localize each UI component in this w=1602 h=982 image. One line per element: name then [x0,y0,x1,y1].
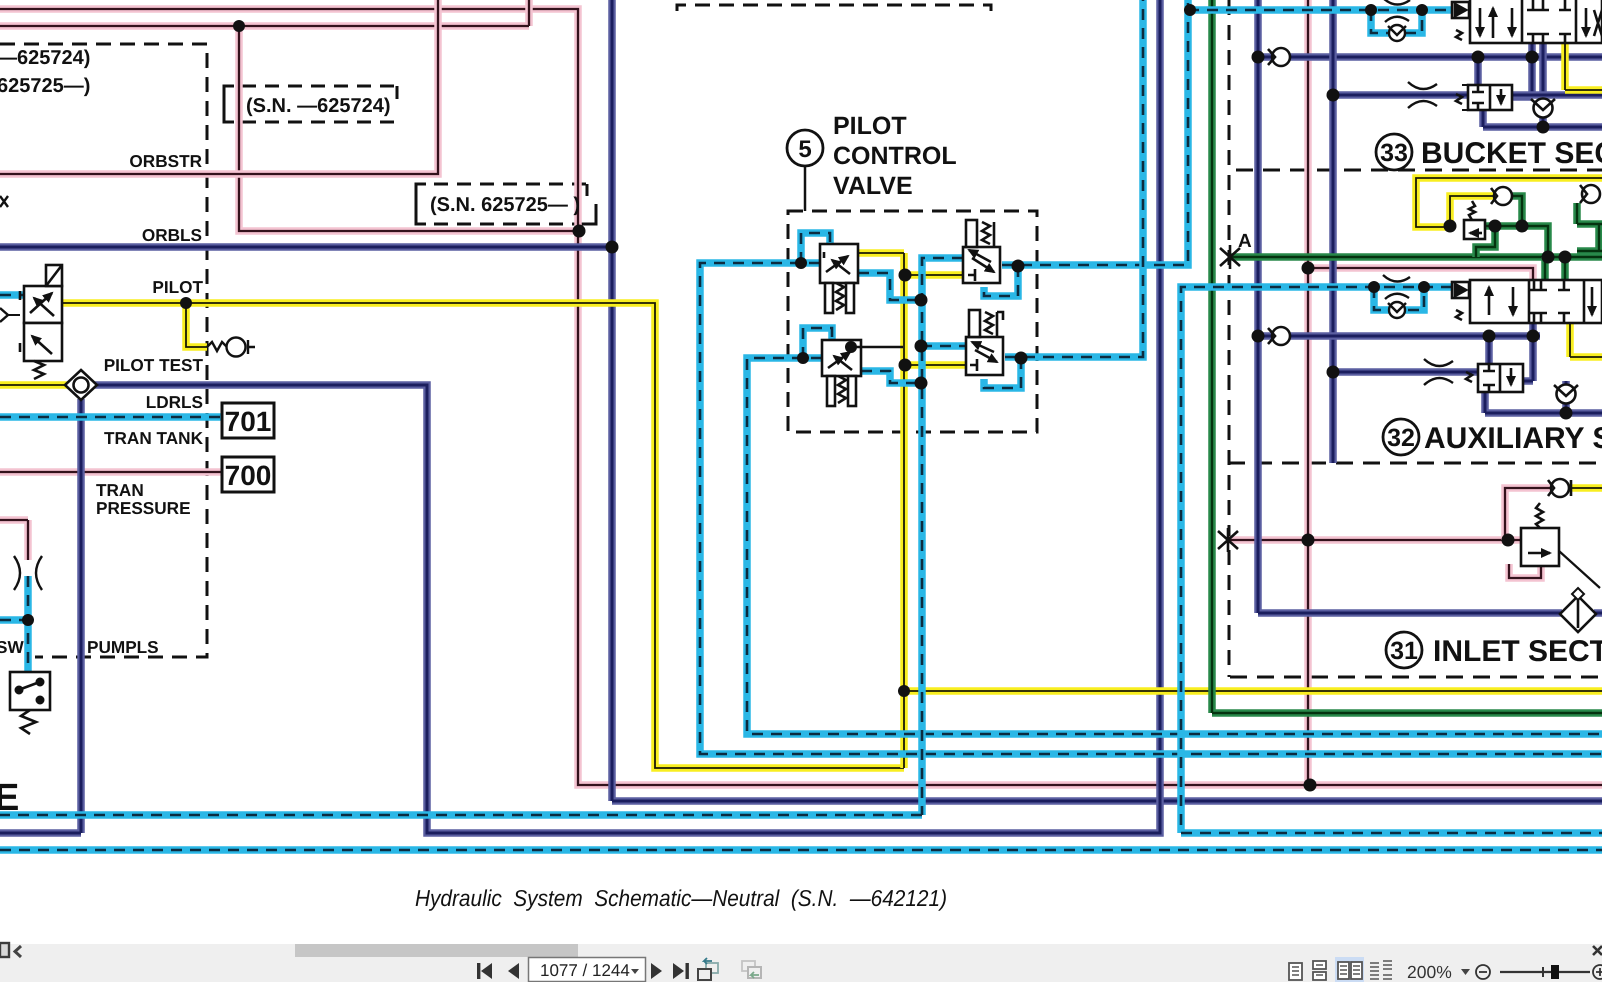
node bucket bypass right [1416,4,1428,16]
svg-text:(S.N. —625724): (S.N. —625724) [246,95,391,117]
inlet system relief valve [1521,503,1600,588]
auxiliary spool directional valve [1452,280,1602,323]
wire green tank trunk x1212 with bottom bus y713 [1212,0,1602,713]
wire cyan bucket bypass loop y33 [1371,10,1422,33]
svg-text:PUMPLS: PUMPLS [87,637,159,657]
svg-text:33: 33 [1380,139,1408,167]
node pink bottom bus tap [1304,779,1317,792]
wire cyan auxiliary bypass loop y310 [1374,287,1424,310]
svg-text:PILOT: PILOT [152,277,203,297]
page number input box [529,958,646,982]
dashed label box (S.N. -625724) [224,86,397,122]
svg-text:5: 5 [798,136,811,163]
wire navy ORBLS horizontal [0,243,612,251]
dashed enclosure box left (valve group border) [0,44,207,657]
wire yellow bucket workport right y90 [1565,44,1602,90]
auxiliary check valve circle on y336 [1268,327,1290,345]
svg-text:PILOT TEST: PILOT TEST [104,355,204,375]
inlet pilot check circle y488 [1548,479,1571,497]
wire yellow pilot check branch y347 [186,303,207,347]
orifice fitting LDRLS (diamond with ball) [65,370,97,400]
icon single page view [1289,963,1302,980]
node cyan top bus tap [1184,4,1196,16]
balloon 31 [1386,632,1422,668]
wire cyan valve2 feed stub y346 [921,342,966,350]
svg-text:AUXILIARY SE: AUXILIARY SE [1424,422,1602,455]
dashed border right section vertical [1228,0,1231,677]
wire cyan valve2 return long y265 x1188 [1002,0,1188,265]
wire pink inlet load sense y540 [1228,536,1523,544]
svg-text:ORBLS: ORBLS [142,225,202,245]
pressure switch SW [10,672,50,734]
auxiliary check valve circle y196 [1491,187,1512,205]
wire yellow riser x904 to pilot valve 1 [858,253,904,768]
balloon 33 [1376,134,1412,170]
node bucket check drain [1537,121,1550,134]
wire green node A line y257 [1230,253,1602,261]
wire cyan auxiliary pilot y287 riser x1181 right bus y833 [1181,287,1602,833]
dashed divider inlet section bottom [1230,676,1602,679]
wire cyan pilot supply loop y263 x700 bus2 y754 [700,263,1602,754]
node yellow riser y275 [899,269,912,282]
svg-text:701: 701 [225,406,272,437]
wire cyan bottom bus y850 [0,846,1602,854]
node A blocked port asterisk on green [1220,245,1240,269]
node valve4 outlet [1015,352,1028,365]
node pink relief tap [1502,534,1515,547]
wire green check outlet branch [1476,196,1522,257]
node bucket comp right [1526,51,1539,64]
auxiliary pressure compensator [1466,364,1523,392]
node pilot valve1 inlet [795,257,807,269]
box tag 700 [222,457,274,492]
node bucket workport trunk [1252,51,1265,64]
svg-text:700: 700 [225,460,272,491]
node check outlet [1516,220,1529,233]
wire pink main pressure line top-right loop (y9 / x578 / y785 bottom bus) [0,9,1602,785]
bucket spool directional valve [1452,0,1602,43]
wire cyan pump sense lower with feed y620 [0,576,28,672]
icon first page [477,963,492,979]
node aux comp feed trunk [1327,366,1340,379]
svg-text:SW: SW [0,637,24,657]
junction line valve3 to yellow riser [851,346,903,348]
wire navy bucket comp drain y127 [1483,110,1602,127]
wire navy bucket spool port drop x1543 [1539,44,1547,127]
wire cyan valve3 cap loop [803,328,832,358]
wire pink right vertical x1308 [1304,0,1312,785]
node bucket return trunk [1327,89,1340,102]
wire yellow auxiliary workport right y357 [1570,323,1602,357]
wire cyan stub into left valve y295 [0,291,24,299]
node cyan riser y383 [915,377,928,390]
toolbar background [0,944,1602,982]
wire yellow inlet pilot y488 [1568,484,1602,492]
icon scrolling view [1313,961,1326,980]
scrollbar left chevron [15,946,21,957]
icon forward page (disabled) [742,961,761,978]
node pump sense [22,614,34,626]
wire cyan TRAN TANK y417 [0,413,224,421]
close x top-right of toolbar [1593,946,1602,955]
svg-text:ORBSTR: ORBSTR [129,151,202,171]
node aux bypass right [1418,281,1430,293]
wire yellow bottom bus y691 [904,687,1602,695]
box tag 701 [222,403,274,438]
svg-text:PILOT: PILOT [833,112,907,140]
wire navy bucket comp stubs [1478,44,1532,97]
zoom out button [1476,965,1490,979]
svg-text:TRAN TANK: TRAN TANK [104,428,204,448]
dashed label box (S.N. 625725-) [416,184,596,224]
node pink aux tap [1302,262,1315,275]
inlet filter diamond on y613 [1560,588,1596,632]
left valve inlet arrow diamond [0,308,20,322]
node valve3 top port [845,341,857,353]
wire cyan valve1 cap loop [801,233,830,263]
pilot control valve 4 (bottom-right reducing valve) [966,310,1003,375]
auxiliary port check circle y394 [1554,385,1578,404]
bucket pressure compensator [1456,85,1512,110]
wire cyan valve3 out to riser x922 [861,371,921,383]
svg-text:32: 32 [1387,424,1415,452]
svg-text:(S.N. 625725— ): (S.N. 625725— ) [430,194,580,216]
wire navy auxiliary workport y336 [1258,323,1540,381]
auxiliary relief valve with spring [1464,201,1485,239]
node PILOT branch [180,297,192,309]
wire cyan riser x922 with left bus y815 [0,258,963,815]
balloon 32 [1383,419,1419,455]
node aux comp left [1483,330,1496,343]
svg-text:VALVE: VALVE [833,172,913,200]
wire pink branch x239 to junction (579,231) [239,26,579,231]
wire green second cluster right edge [1577,203,1602,251]
node pink inlet tap [1302,534,1315,547]
node top pink junction [233,20,245,32]
bucket restrictor arcs y95 [1408,82,1437,108]
wire pink ORBSTR [0,0,438,174]
node pilot valve3 inlet [797,352,809,364]
wire yellow valve4 feed y365 [905,361,968,369]
dashed box top-center (border of upper component, bottom edge) [677,5,991,11]
wire yellow pilot test stub [0,381,68,389]
leader line from balloon 5 [804,166,807,211]
pilot test check valve (spring, ball, seat) [207,338,255,357]
scrollbar corner box [0,943,9,957]
icon previous page [508,963,519,979]
restrictor arcs on cyan top bypass [1383,0,1410,41]
wire cyan pilot supply loop y358 x747 bus1 y734 [747,358,1602,734]
wire pink upper second line (x529/y26) [0,0,529,26]
wire navy ORBLS vertical x612 with bottom bus y801 [612,0,1602,801]
wire green auxiliary spool top stubs [1545,257,1565,282]
svg-text:LDRLS: LDRLS [146,392,203,412]
svg-text:Hydraulic System Schematic—N: Hydraulic System Schematic—Neutral (S.N.… [415,885,947,911]
wire navy auxiliary comp feed y372 [1333,368,1478,376]
node relief outlet [1489,220,1502,233]
balloon 5 circle [787,130,823,166]
wire yellow auxiliary relief branch y196 [1450,196,1495,226]
svg-text:BUCKET SECT: BUCKET SECT [1421,137,1602,170]
wire pink TRAN PRESSURE [0,468,224,476]
wire navy auxiliary comp drain y413 [1485,381,1602,413]
node pink x579 junction [573,225,586,238]
node yellow riser y365 [899,359,912,372]
node relief inlet [1444,220,1457,233]
wire pink inlet relief top branch [1505,488,1553,540]
bucket port check below spool [1531,99,1555,118]
pilot control valve 3 (bottom-left reducing valve) [822,340,861,406]
wire yellow valve2 feed y275 [905,271,966,279]
wire yellow auxiliary loop y178/y226 [1416,178,1602,227]
svg-text:PRESSURE: PRESSURE [96,498,191,518]
icon two page view (active) [1335,957,1364,982]
cut-off symbol left edge (x mark) [0,196,8,207]
restrictor arcs on cyan aux bypass [1383,275,1410,318]
wire cyan valve2 spring loop [984,266,1018,296]
auxiliary restrictor arcs y372 [1424,359,1453,385]
node green spool stub A [1542,251,1555,264]
node cyan riser y300 [915,294,928,307]
node ORBLS junction [606,241,619,254]
wire yellow PILOT supply run [62,303,904,768]
wire navy trunk x1333 [1329,0,1337,463]
svg-text:31: 31 [1390,637,1418,665]
svg-text:CONTROL: CONTROL [833,142,957,170]
svg-text:625725—): 625725—) [0,75,90,97]
icon revert page [698,958,718,980]
wire navy right trunk x1258 with inlet run y613 [1258,0,1602,613]
restrictor arcs pump sense [14,556,42,590]
svg-text:—625724): —625724) [0,47,90,69]
wire navy bucket return y95 [1333,91,1602,99]
wire navy bucket workport y57 [1258,53,1602,61]
pilot control valve 2 (top-right reducing valve) [963,220,1000,283]
zoom dropdown caret [1461,969,1470,975]
wire cyan valve4 return long y357 x1143 [1005,0,1143,357]
wire navy LDRLS long run x427 y833 x1160 [95,0,1160,833]
inlet blocked port asterisk on pink [1218,528,1238,552]
svg-text:1077 / 1244: 1077 / 1244 [540,961,630,980]
icon two page scrolling [1370,961,1392,979]
zoom slider [1500,971,1590,973]
wire green relief outlet y226 [1485,226,1548,257]
dashed pilot control valve box [788,211,1037,432]
node aux drain check [1560,407,1573,420]
wire navy drop from pilot-test orifice x81 [0,399,81,833]
wire cyan top bus y10 to bucket solenoid [1188,6,1452,14]
icon last page [673,963,689,979]
scrollbar thumb [295,944,578,957]
icon next page [651,963,662,979]
wire cyan valve1 out to riser x922 [858,273,921,300]
svg-text:200%: 200% [1407,962,1452,982]
dashed divider auxiliary/inlet section [1228,462,1602,465]
bucket check valve circle on y57 [1268,48,1290,66]
zoom in button [1593,965,1602,979]
node aux workport trunk [1252,330,1265,343]
node bucket comp left [1472,51,1485,64]
wire pink relief drain wrap [1509,564,1541,578]
solenoid pilot valve left (steering priority) [20,265,62,379]
pilot control valve 1 (top-left reducing valve) [820,244,858,313]
node aux comp right [1527,330,1540,343]
wire pink pump sense upper [0,520,28,560]
node green spool stub B [1559,251,1572,264]
wire pink auxiliary spool feed y268 [1308,268,1533,282]
dashed divider bucket/auxiliary section [1236,169,1602,172]
wire cyan valve4 spring loop [984,358,1021,388]
node valve2 outlet [1012,260,1025,273]
svg-text:INLET SECTIO: INLET SECTIO [1433,635,1602,668]
node cyan riser y346 [915,340,928,353]
svg-text:A: A [1238,231,1252,252]
node yellow bus tap [898,685,910,697]
node aux bypass left [1368,281,1380,293]
node bucket bypass left [1365,4,1377,16]
svg-text:TRAN: TRAN [96,480,144,500]
second check valve circle right edge y196 [1580,185,1600,203]
svg-text:E: E [0,777,19,819]
